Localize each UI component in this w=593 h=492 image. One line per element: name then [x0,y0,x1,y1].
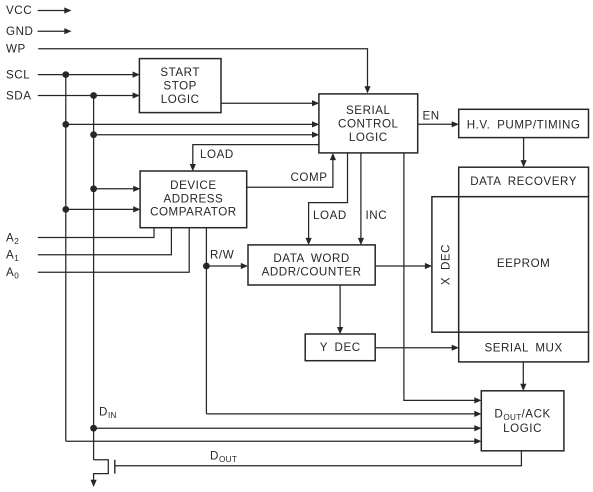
svg-text:LOAD: LOAD [200,148,234,161]
svg-text:ADDR/COUNTER: ADDR/COUNTER [262,265,362,278]
svg-text:R/W: R/W [210,248,234,261]
wire R/W to data word counter [206,265,241,267]
svg-text:DEVICE: DEVICE [170,179,216,192]
wire A0 input [38,228,189,273]
svg-text:EN: EN [423,109,440,122]
wire data word counter to x dec [375,265,426,267]
block DOUT/ACK LOGIC box [481,391,564,451]
wire SCL branch to serial control [66,123,313,125]
wire SDA input [38,95,134,97]
wire y dec to serial mux [375,347,453,349]
svg-text:STOP: STOP [163,79,197,92]
wire SDA branch to serial control [94,134,313,136]
svg-text:START: START [160,66,200,79]
wire SCL vertical bus [65,75,67,442]
svg-text:CONTROL: CONTROL [338,118,399,131]
svg-text:SDA: SDA [6,90,32,103]
svg-text:SERIAL MUX: SERIAL MUX [484,342,562,355]
svg-text:COMPARATOR: COMPARATOR [150,206,237,219]
block HV PUMP/TIMING box [459,109,589,137]
block START STOP LOGIC box [139,59,221,113]
node SDA junction [90,92,97,99]
svg-text:LOGIC: LOGIC [349,131,388,144]
wire serial control to dout/ack logic [404,153,475,400]
wire LOAD to device address comparator [193,145,319,165]
svg-text:Y DEC: Y DEC [320,341,361,354]
block X DEC box [432,197,459,333]
block Y DEC box [305,334,375,361]
svg-text:LOGIC: LOGIC [503,422,542,435]
wire D OUT from dout/ack logic [115,451,522,466]
wire SDA to comparator input [94,188,135,190]
wire SCL input [38,74,134,76]
node SCL branch junction [62,121,69,128]
wire LOAD to data word counter [309,153,348,239]
wire EN to hv pump [418,123,453,125]
svg-text:VCC: VCC [6,4,32,17]
wire COMP to serial control logic [247,159,333,187]
svg-text:INC: INC [366,209,388,222]
svg-text:DATA WORD: DATA WORD [273,252,349,265]
wire D IN to dout/ack logic [94,427,476,429]
wire VCC arrow [38,10,65,12]
transistor output MOSFET [94,460,109,480]
svg-text:DOUT/ACK: DOUT/ACK [494,407,550,422]
wire A2 input [38,228,154,238]
node D IN junction [90,425,97,432]
block DEVICE ADDRESS COMPARATOR box [140,171,247,228]
wire SDA vertical bus [93,96,95,460]
wire A1 input [38,228,172,255]
svg-text:X DEC: X DEC [439,244,452,285]
wire data word counter to y dec [339,285,341,328]
svg-text:DATA RECOVERY: DATA RECOVERY [470,175,577,188]
node SDA branch junction [90,131,97,138]
svg-text:SCL: SCL [6,69,30,82]
svg-text:SERIAL: SERIAL [346,104,391,117]
block SERIAL CONTROL LOGIC box [319,94,418,153]
node SCL comparator junction [62,206,69,213]
node SCL junction [62,71,69,78]
wire R/W to dout/ack logic [206,413,475,415]
svg-text:COMP: COMP [291,171,328,184]
svg-text:H.V. PUMP/TIMING: H.V. PUMP/TIMING [467,118,581,131]
node R/W junction [203,263,210,270]
wire WP to serial control logic [38,49,367,88]
svg-text:WP: WP [6,43,26,56]
svg-text:LOGIC: LOGIC [161,93,200,106]
wire start-stop output to serial control [221,102,313,104]
wire SCL to comparator input [66,208,134,210]
wire GND arrow [38,30,65,32]
svg-text:EEPROM: EEPROM [497,257,551,270]
block DATA RECOVERY box [459,167,589,197]
wire hv pump to data recovery [523,138,525,162]
wire R/W vertical [205,228,207,414]
wire INC to data word counter [360,153,362,239]
svg-text:GND: GND [6,25,33,38]
node SDA comparator junction [90,185,97,192]
block DATA WORD ADDR/COUNTER box [248,245,375,285]
block EEPROM box [459,197,589,333]
wire serial mux to dout/ack logic [522,362,524,385]
svg-text:LOAD: LOAD [313,209,347,222]
block SERIAL MUX box [459,332,589,362]
wire SCL to dout/ack logic [66,440,476,442]
svg-text:ADDRESS: ADDRESS [163,192,223,205]
